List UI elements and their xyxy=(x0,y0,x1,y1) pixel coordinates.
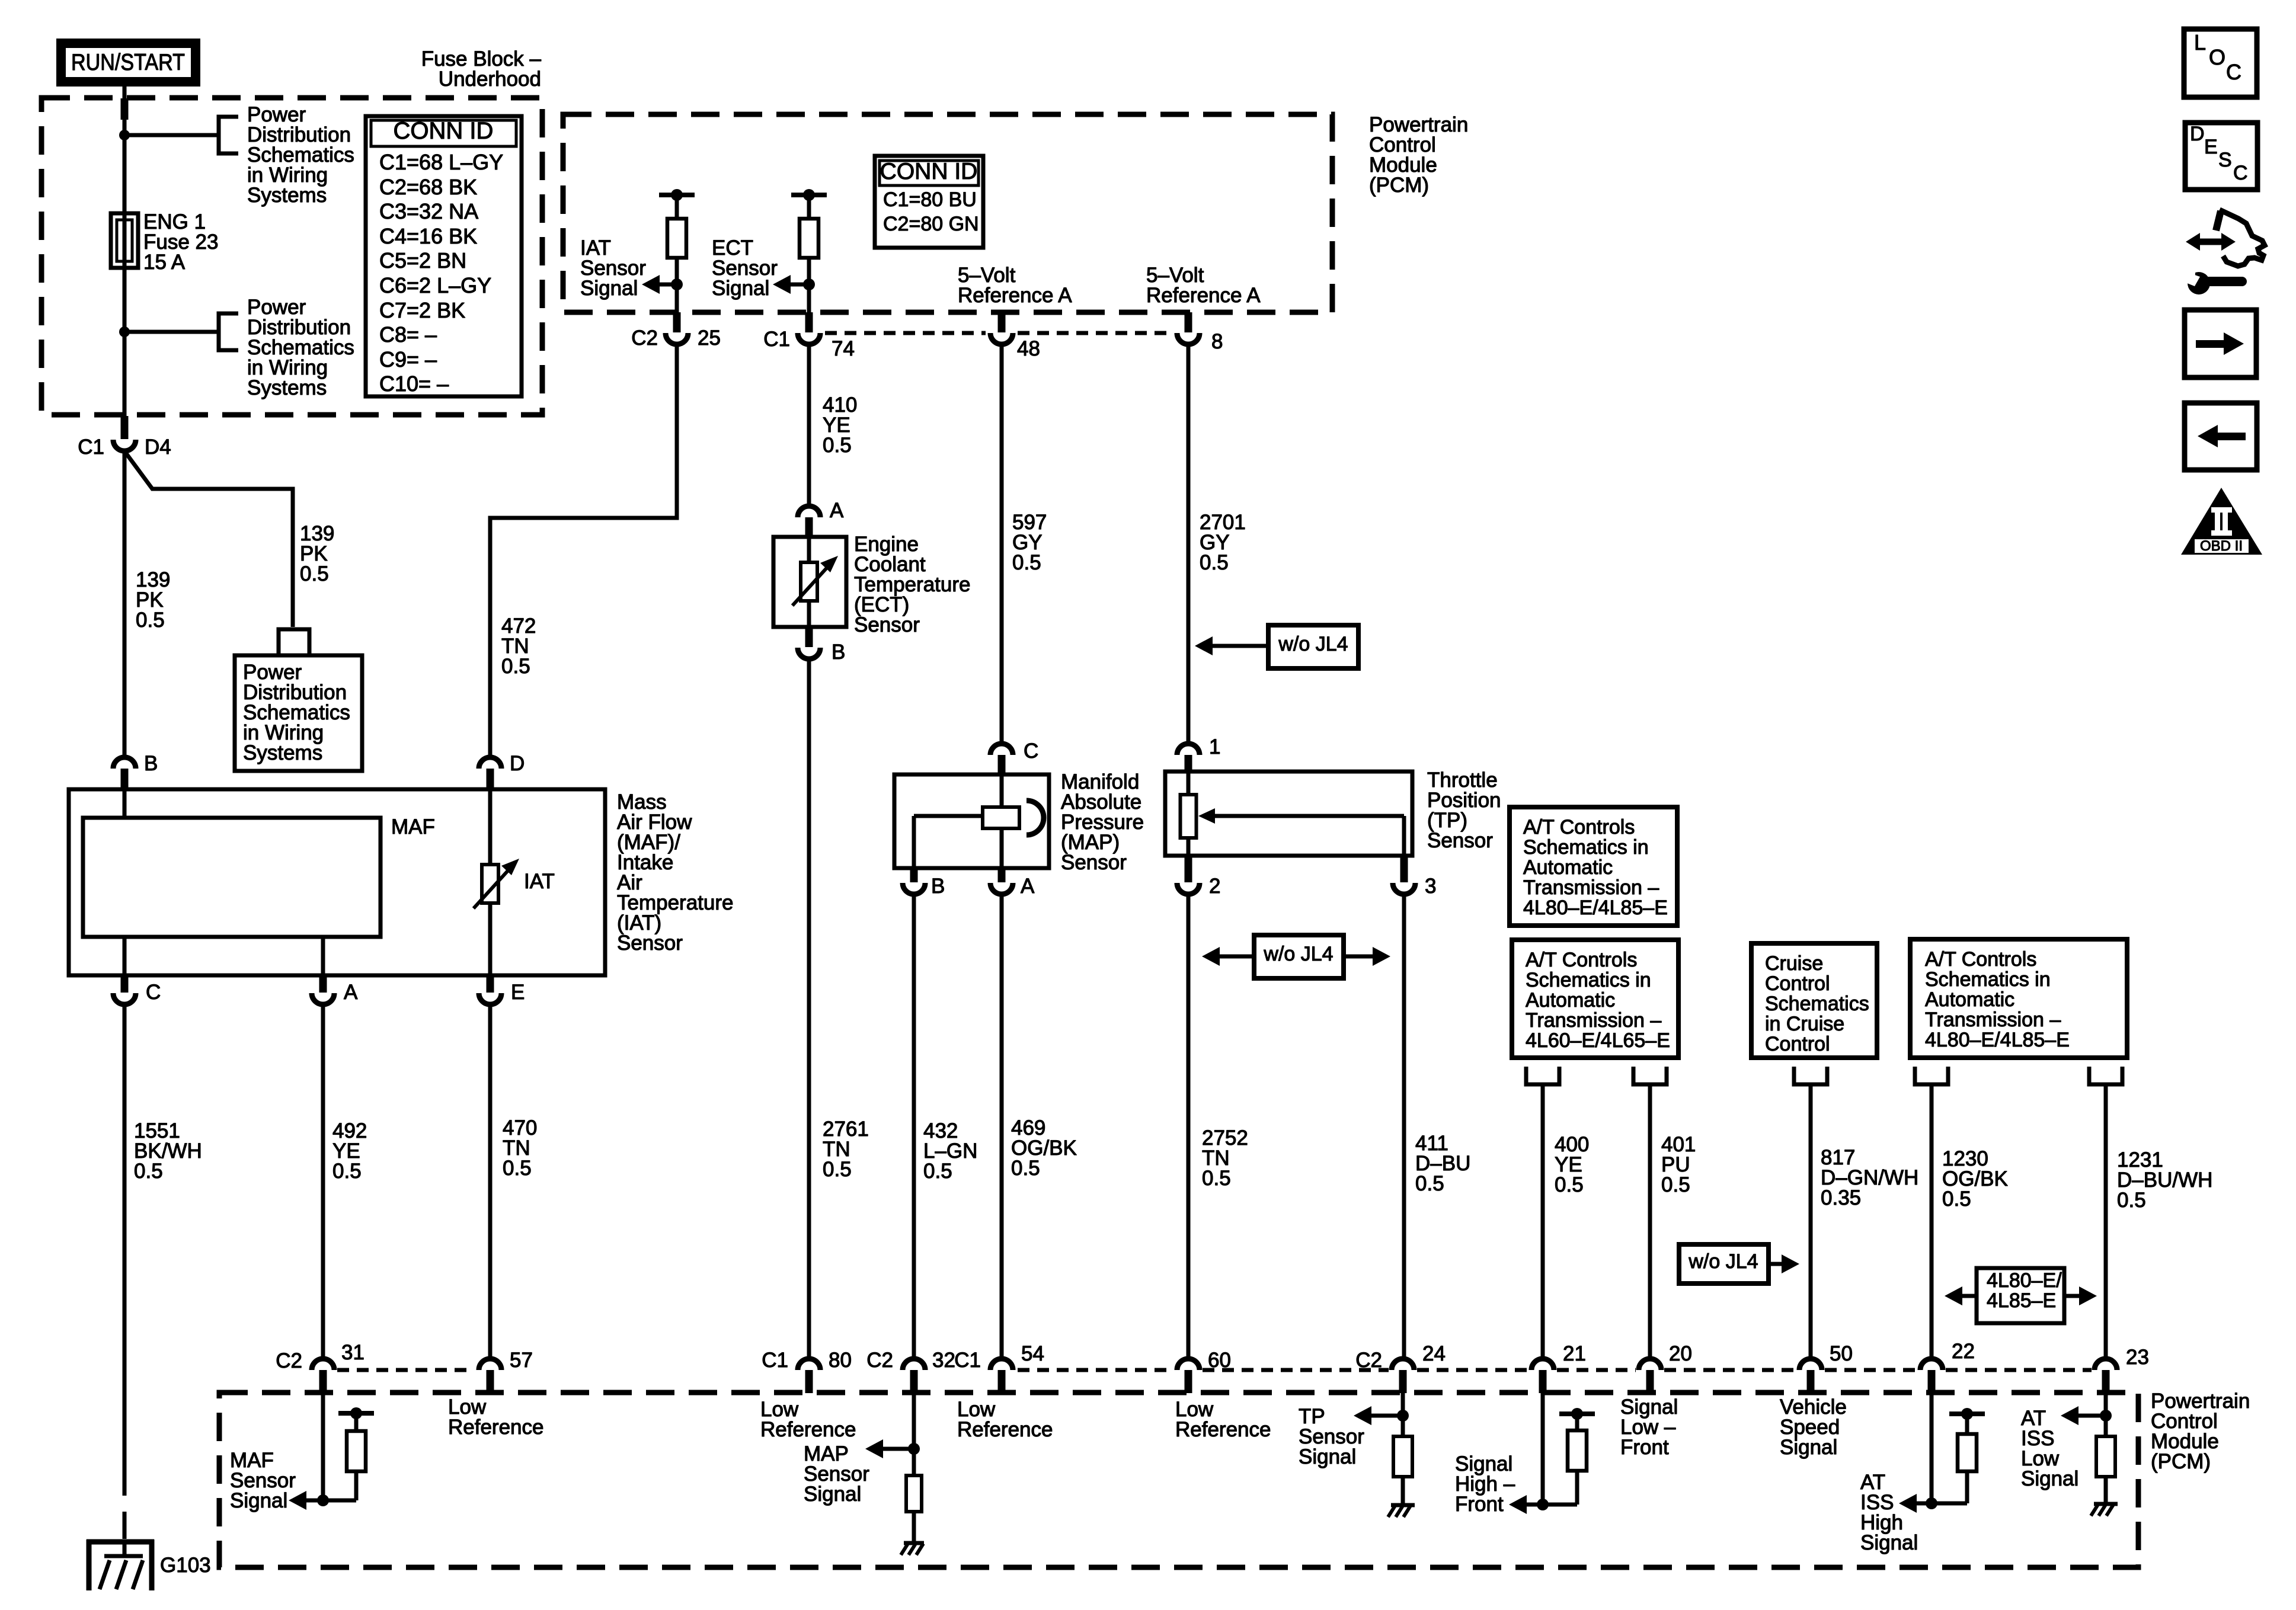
svg-text:O: O xyxy=(2209,45,2225,69)
bracket 817 wire xyxy=(1794,1067,1827,1084)
label 8 xyxy=(1211,330,1223,353)
IAT sensor signal junction xyxy=(671,279,683,290)
TP sensor box xyxy=(1165,772,1412,856)
connector MAF pin B xyxy=(113,757,136,792)
svg-text:C: C xyxy=(2233,162,2248,184)
connector C1 pin D4 xyxy=(113,416,136,451)
svg-text:D: D xyxy=(2190,123,2205,145)
label E MAF xyxy=(511,981,525,1004)
w/o JL4 callout upper xyxy=(1195,625,1358,668)
svg-text:23: 23 xyxy=(2126,1346,2149,1369)
Low Reference label 60 xyxy=(1175,1398,1271,1441)
ground TP internal xyxy=(1388,1505,1415,1517)
label 20 xyxy=(1669,1342,1692,1365)
RUN/START hot-at box xyxy=(56,39,200,87)
connector TP pin 3 xyxy=(1393,856,1415,894)
connector pin 8 xyxy=(1177,312,1200,344)
label C2 24 xyxy=(1355,1342,1446,1372)
MAP Sensor Signal label xyxy=(804,1442,869,1506)
svg-text:C4=16 BK: C4=16 BK xyxy=(379,224,477,248)
5-volt reference A label 1 xyxy=(958,264,1072,307)
AT ISS low wire 23 xyxy=(2104,1393,2108,1416)
label A ECT xyxy=(830,499,844,522)
wire label 1230 OG/BK 0.5 xyxy=(1942,1147,2008,1211)
svg-text:D: D xyxy=(510,752,525,775)
w/o JL4 callout double arrow xyxy=(1202,935,1390,978)
svg-text:20: 20 xyxy=(1669,1342,1692,1365)
svg-text:A: A xyxy=(830,499,844,522)
svg-text:32: 32 xyxy=(932,1349,955,1372)
wire label 492 YE 0.5 xyxy=(332,1119,367,1183)
svg-text:A: A xyxy=(1021,875,1035,898)
bracket 400 wire xyxy=(1526,1067,1559,1084)
label 57 xyxy=(510,1349,533,1372)
Low Reference label 80 xyxy=(760,1398,856,1441)
label 2 TP xyxy=(1209,875,1220,898)
label 3 TP xyxy=(1425,875,1436,898)
MAP sensor signal wire xyxy=(912,1393,916,1449)
svg-text:31: 31 xyxy=(341,1341,364,1364)
wire 1551 BK/WH to G103 xyxy=(123,1004,127,1541)
wire label 2752 TN 0.5 xyxy=(1202,1126,1248,1190)
svg-text:C3=32 NA: C3=32 NA xyxy=(379,199,478,223)
wire 1230 OG/BK to 22 xyxy=(1930,1084,1934,1357)
svg-text:74: 74 xyxy=(832,337,855,360)
bracket connector power distribution box xyxy=(279,629,309,655)
Fuse Block - Underhood label xyxy=(421,47,542,91)
Throttle Position TP Sensor label xyxy=(1427,769,1501,852)
wire 597 GY from 48 to MAP C xyxy=(1000,344,1004,742)
svg-text:C2: C2 xyxy=(276,1349,302,1372)
connector boundary dotted bottom row xyxy=(337,1368,2092,1372)
AT ISS Low Signal label xyxy=(2021,1407,2078,1490)
wire 492 YE to C2 31 xyxy=(321,1004,325,1357)
junction node upper xyxy=(119,130,130,140)
5-volt reference A label 2 xyxy=(1146,264,1261,307)
CONN ID table PCM xyxy=(875,156,983,248)
wire 432 L-GN MAP B to C2 32 xyxy=(912,894,916,1357)
wire 410 YE from C1 74 to ECT A xyxy=(807,344,811,505)
ECT sensor box xyxy=(773,537,846,627)
IAT Sensor Signal label xyxy=(580,236,646,300)
svg-text:C9= –: C9= – xyxy=(379,347,437,372)
wire label 2701 GY 0.5 xyxy=(1200,511,1246,574)
svg-text:E: E xyxy=(2204,136,2218,158)
ECT sensor signal junction xyxy=(803,279,815,290)
svg-text:54: 54 xyxy=(1021,1342,1044,1365)
svg-text:C1: C1 xyxy=(78,436,104,459)
svg-text:B: B xyxy=(931,875,945,898)
svg-text:w/o JL4: w/o JL4 xyxy=(1278,633,1348,655)
MAP sensor internals xyxy=(914,774,1044,868)
OBD II icon xyxy=(2181,488,2262,555)
svg-text:C10= –: C10= – xyxy=(379,372,449,396)
Power Distribution Schematics box xyxy=(235,655,362,771)
connector C2 pin 24 xyxy=(1392,1359,1414,1393)
junction node lower xyxy=(119,327,130,337)
Signal High Front label xyxy=(1455,1452,1515,1516)
AT Controls 4L60 box xyxy=(1512,940,1678,1058)
connector C1 pin 74 xyxy=(798,312,820,344)
svg-text:RUN/START: RUN/START xyxy=(71,50,185,75)
MAP sensor box xyxy=(894,774,1049,868)
AT ISS High Signal label xyxy=(1860,1471,1918,1554)
TP Sensor Signal label xyxy=(1299,1405,1364,1468)
svg-text:80: 80 xyxy=(829,1349,852,1372)
label MAF xyxy=(391,815,435,838)
label A MAF xyxy=(344,981,358,1004)
wire label 139 PK 0.5 left xyxy=(136,568,170,632)
connector C1 pin 54 xyxy=(990,1359,1013,1393)
label C1 xyxy=(78,436,104,459)
svg-text:CONN ID: CONN ID xyxy=(394,118,494,144)
ground 23 internal xyxy=(2091,1504,2118,1516)
TP signal junction xyxy=(1397,1410,1409,1422)
ground MAP internal xyxy=(901,1543,924,1555)
w/o JL4 callout right xyxy=(1679,1244,1799,1283)
MAF Sensor Signal label xyxy=(230,1449,296,1512)
label B ECT xyxy=(832,641,845,664)
label C2 31 xyxy=(276,1341,364,1372)
DESC icon box xyxy=(2185,123,2257,190)
svg-text:C: C xyxy=(146,981,161,1004)
off-page bracket lower xyxy=(219,313,238,350)
CONN ID table fuse block xyxy=(366,116,522,396)
label 1 TP xyxy=(1209,735,1220,758)
LOC icon box xyxy=(2184,29,2257,97)
svg-text:w/o JL4: w/o JL4 xyxy=(1688,1250,1758,1273)
resistor IAT pullup xyxy=(667,195,686,284)
wire IAT signal to C2 25 xyxy=(675,284,679,314)
connector TP pin 1 xyxy=(1177,744,1200,774)
Cruise Control box xyxy=(1751,943,1877,1058)
svg-text:24: 24 xyxy=(1422,1342,1446,1365)
connector ECT pin B xyxy=(798,627,820,659)
svg-text:G103: G103 xyxy=(160,1554,211,1577)
svg-text:3: 3 xyxy=(1425,875,1436,898)
label IAT xyxy=(524,870,555,893)
22 arrow xyxy=(1899,1494,1932,1513)
Vehicle Speed Signal label xyxy=(1780,1395,1847,1459)
connector pin 22 xyxy=(1920,1359,1943,1393)
svg-text:B: B xyxy=(832,641,845,664)
svg-text:C: C xyxy=(1024,740,1038,763)
forward arrow icon box xyxy=(2185,310,2256,377)
label C MAP xyxy=(1024,740,1038,763)
4L80-E/4L85-E double arrow callout xyxy=(1945,1268,2097,1323)
svg-text:C7=2 BK: C7=2 BK xyxy=(379,298,465,322)
IAT pullup T-bar xyxy=(659,189,695,201)
Power Distribution Schematics upper label xyxy=(247,103,354,207)
wire 472 TN from C2 25 to IAT D xyxy=(490,344,677,757)
connector MAF pin D xyxy=(479,757,501,792)
AT ISS high wire 22 xyxy=(1930,1393,1934,1503)
label 25 xyxy=(698,327,721,350)
svg-text:Fuse Block –Underhood: Fuse Block –Underhood xyxy=(421,47,542,91)
wire label 1551 BK/WH 0.5 xyxy=(134,1119,202,1183)
connector pin 20 xyxy=(1639,1359,1661,1393)
label 23 xyxy=(2126,1346,2149,1369)
svg-text:E: E xyxy=(511,981,525,1004)
MAF signal arrow xyxy=(289,1491,323,1510)
back arrow icon box xyxy=(2185,403,2257,470)
22 resistor branch xyxy=(1932,1408,1985,1503)
Powertrain Control Module PCM top label xyxy=(1369,113,1468,197)
wire label 472 TN 0.5 xyxy=(501,614,536,678)
label C1 80 xyxy=(762,1349,852,1372)
svg-text:C6=2 L–GY: C6=2 L–GY xyxy=(379,273,491,297)
IAT thermistor xyxy=(474,789,519,975)
label 22 xyxy=(1952,1340,1975,1363)
label A MAP xyxy=(1021,875,1035,898)
21 arrow xyxy=(1509,1495,1543,1514)
svg-text:4L80–E/4L85–E: 4L80–E/4L85–E xyxy=(1987,1269,2062,1312)
PCM bottom dashed box xyxy=(219,1393,2138,1567)
wire label 2761 TN 0.5 xyxy=(823,1118,869,1181)
Mass Air Flow MAF IAT Sensor label xyxy=(617,790,733,955)
svg-text:L: L xyxy=(2194,30,2206,55)
svg-text:50: 50 xyxy=(1830,1342,1853,1365)
svg-text:1: 1 xyxy=(1209,735,1220,758)
MAP signal resistor to ground xyxy=(906,1449,922,1543)
fuse ENG1 label xyxy=(143,210,218,274)
label C MAF xyxy=(146,981,161,1004)
Signal Low Front label xyxy=(1620,1395,1678,1459)
label G103 xyxy=(160,1554,211,1577)
wire 2701 GY from 8 to TP 1 xyxy=(1187,344,1191,742)
bracket 1230 wire xyxy=(1915,1067,1948,1084)
ECT Sensor Signal label xyxy=(712,236,778,300)
connector C1 pin 80 xyxy=(798,1359,820,1393)
MAF sensor outer box xyxy=(69,789,605,975)
wire 2752 TN TP 2 to 60 xyxy=(1187,894,1191,1357)
wire label 817 D-GN/WH 0.35 xyxy=(1821,1146,1918,1209)
ECT sensor signal arrow xyxy=(773,275,809,294)
TP sensor internals xyxy=(1181,772,1405,856)
ECT thermistor xyxy=(792,556,838,606)
label C2 top xyxy=(631,327,658,350)
label D4 xyxy=(145,436,171,459)
wire 817 D-GN/WH to 50 xyxy=(1809,1084,1813,1357)
svg-text:C: C xyxy=(2226,60,2241,84)
svg-text:ThrottlePosition(TP)Sensor: ThrottlePosition(TP)Sensor xyxy=(1427,769,1501,852)
wire 139 PK to MAF B xyxy=(123,450,127,757)
svg-text:8: 8 xyxy=(1211,330,1223,353)
IAT sensor signal arrow xyxy=(642,275,677,294)
wire label 1231 D-BU/WH 0.5 xyxy=(2117,1148,2212,1212)
label 21 xyxy=(1563,1342,1586,1365)
wire 2761 TN ECT B to C1 80 xyxy=(807,659,811,1357)
svg-text:C2: C2 xyxy=(866,1349,893,1372)
wire diagonal branch from D4 xyxy=(126,453,293,627)
label C1 54 xyxy=(954,1342,1044,1372)
Powertrain Control Module PCM bottom label xyxy=(2151,1390,2250,1473)
svg-text:MAF: MAF xyxy=(391,815,435,838)
Manifold Absolute Pressure MAP Sensor label xyxy=(1061,770,1144,874)
bracket 401 wire xyxy=(1633,1067,1667,1084)
connector C2 pin 32 xyxy=(903,1359,925,1393)
wire branch to power distribution lower xyxy=(124,330,219,334)
svg-text:C1: C1 xyxy=(954,1349,981,1372)
svg-text:A: A xyxy=(344,981,358,1004)
AT Controls 4L80 right box xyxy=(1910,939,2127,1058)
connector MAP pin C xyxy=(990,744,1013,777)
21 junction xyxy=(1537,1499,1549,1510)
svg-text:CONN ID: CONN ID xyxy=(880,159,978,184)
22 junction xyxy=(1926,1497,1937,1509)
MAF signal resistor branch xyxy=(323,1407,374,1500)
wire fuse to connector C1 xyxy=(123,268,127,418)
connector pin 48 xyxy=(990,312,1013,344)
label 74 xyxy=(832,337,855,360)
wire label 410 YE 0.5 xyxy=(823,393,857,457)
wire label 469 OG/BK 0.5 xyxy=(1011,1116,1077,1180)
21 resistor branch xyxy=(1543,1408,1595,1505)
connector MAF pin C xyxy=(113,975,136,1004)
Low Reference label 54 xyxy=(957,1398,1053,1441)
svg-text:C1=68 L–GY: C1=68 L–GY xyxy=(379,150,503,174)
svg-text:21: 21 xyxy=(1563,1342,1586,1365)
connector MAP pin B xyxy=(903,868,925,894)
TP signal arrow xyxy=(1354,1406,1403,1425)
connector MAF pin A xyxy=(312,975,334,1004)
wire 469 OG/BK MAP A to C1 54 xyxy=(1000,894,1004,1357)
svg-text:22: 22 xyxy=(1952,1340,1975,1363)
wire 470 TN to 57 xyxy=(488,1004,493,1357)
connector pin 60 xyxy=(1177,1359,1200,1393)
connector pin 57 xyxy=(479,1359,501,1393)
fuse block underhood dashed box xyxy=(41,98,542,415)
MAP signal arrow xyxy=(865,1439,914,1458)
label 50 xyxy=(1830,1342,1853,1365)
svg-text:C2: C2 xyxy=(631,327,658,350)
Power Distribution Schematics lower label xyxy=(247,296,354,399)
svg-text:C8= –: C8= – xyxy=(379,322,437,347)
svg-text:w/o JL4: w/o JL4 xyxy=(1263,943,1333,965)
connector pin 21 xyxy=(1531,1359,1554,1393)
svg-text:C2=68 BK: C2=68 BK xyxy=(379,175,477,199)
svg-text:S: S xyxy=(2218,149,2232,171)
23 resistor to ground xyxy=(2096,1416,2115,1504)
svg-text:D4: D4 xyxy=(145,436,171,459)
svg-text:57: 57 xyxy=(510,1349,533,1372)
off-page bracket upper xyxy=(219,117,238,153)
fuse ENG 1 Fuse 23 15 A xyxy=(111,213,138,268)
23 junction xyxy=(2100,1410,2112,1422)
label B MAP xyxy=(931,875,945,898)
wire label 400 YE 0.5 xyxy=(1555,1133,1589,1196)
svg-text:C1: C1 xyxy=(762,1349,788,1372)
svg-text:C1: C1 xyxy=(763,328,790,351)
connector C2 pin 31 xyxy=(312,1359,334,1393)
wire label 432 L-GN 0.5 xyxy=(923,1119,977,1183)
label D MAF xyxy=(510,752,525,775)
connector MAF pin E xyxy=(479,975,501,1004)
resistor ECT pullup xyxy=(800,195,818,284)
wire branch to power distribution upper xyxy=(124,133,219,137)
connector ECT pin A xyxy=(798,506,820,538)
svg-text:VehicleSpeedSignal: VehicleSpeedSignal xyxy=(1780,1395,1847,1459)
Low Reference label 57 xyxy=(448,1395,543,1439)
23 arrow xyxy=(2061,1406,2106,1425)
wire 1231 D-BU/WH to 23 xyxy=(2104,1084,2108,1357)
MAF inner box xyxy=(83,789,380,975)
wire label 401 PU 0.5 xyxy=(1661,1133,1696,1196)
connector C2 pin 25 xyxy=(666,312,688,344)
label 60 xyxy=(1208,1349,1231,1372)
connector MAP pin A xyxy=(990,868,1013,894)
wire run/start feed into fuse block xyxy=(121,87,129,213)
TP signal resistor to ground xyxy=(1393,1416,1412,1505)
bracket 1231 wire xyxy=(2089,1067,2122,1084)
svg-text:C5=2 BN: C5=2 BN xyxy=(379,248,466,273)
svg-text:B: B xyxy=(144,752,158,775)
svg-text:2: 2 xyxy=(1209,875,1220,898)
PCM top dashed box xyxy=(563,114,1332,312)
wire label 597 GY 0.5 xyxy=(1012,511,1047,574)
ECT pullup T-bar xyxy=(791,189,827,201)
wire 400 YE to 21 xyxy=(1541,1084,1545,1357)
ground G103 xyxy=(87,1539,154,1590)
Engine Coolant Temperature ECT Sensor label xyxy=(854,533,970,636)
signal high front wire 21 xyxy=(1541,1393,1545,1505)
wire label 470 TN 0.5 xyxy=(503,1116,537,1180)
wire label 139 PK 0.5 branch xyxy=(300,522,334,585)
AT Controls 4L80 upper box xyxy=(1510,807,1677,926)
svg-text:C1=80 BU: C1=80 BU xyxy=(883,188,977,211)
connector pin 50 xyxy=(1799,1359,1822,1393)
label 48 xyxy=(1017,337,1040,360)
label C1 top xyxy=(763,328,790,351)
TP sensor signal wire xyxy=(1401,1393,1405,1416)
label C2 32 xyxy=(866,1349,955,1372)
label B MAF xyxy=(144,752,158,775)
svg-text:25: 25 xyxy=(698,327,721,350)
connector boundary dotted C1 top xyxy=(825,331,1172,335)
wire 411 D-BU TP 3 to C2 24 xyxy=(1402,894,1406,1357)
wire label 411 D-BU 0.5 xyxy=(1415,1132,1470,1195)
scan tool icon xyxy=(2183,210,2265,295)
connector pin 23 xyxy=(2094,1359,2117,1393)
wire ECT signal to C1 74 xyxy=(807,284,811,314)
svg-text:C2=80 GN: C2=80 GN xyxy=(883,213,979,235)
svg-text:48: 48 xyxy=(1017,337,1040,360)
connector TP pin 2 xyxy=(1177,856,1200,894)
svg-text:IAT: IAT xyxy=(524,870,555,893)
svg-text:OBD II: OBD II xyxy=(2200,538,2243,554)
MAF signal junction xyxy=(317,1494,329,1506)
wire 401 PU to 20 xyxy=(1648,1084,1652,1357)
MAF sensor signal wire xyxy=(321,1393,325,1500)
MAP signal junction xyxy=(908,1443,920,1455)
